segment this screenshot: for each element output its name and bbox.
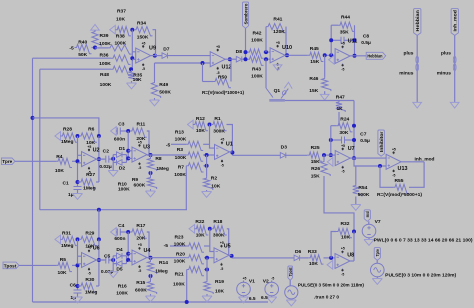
svg-text:100K: 100K	[118, 186, 130, 192]
svg-text:R27: R27	[86, 172, 95, 178]
svg-text:R20: R20	[176, 251, 185, 257]
resistor R13	[171, 143, 186, 145]
resistor R17	[130, 229, 147, 238]
capacitor C4	[116, 231, 117, 233]
svg-text:R36: R36	[100, 52, 109, 58]
wire R32 to U8 output	[353, 232, 355, 262]
svg-text:1Meg: 1Meg	[85, 289, 98, 295]
node R29 right	[97, 237, 101, 241]
diode D1	[113, 154, 116, 156]
ground below R2	[206, 190, 208, 192]
svg-text:R=(V(mod)*5000+1): R=(V(mod)*5000+1)	[377, 192, 423, 197]
svg-text:10K: 10K	[116, 17, 125, 23]
ground flag (rotated left) at C3	[111, 127, 117, 136]
svg-text:R13: R13	[175, 130, 184, 136]
node U3 inv in	[126, 149, 130, 153]
ground flag (rotated left) at R28	[55, 132, 61, 141]
node R12/R1 junction	[208, 123, 212, 127]
svg-text:100K: 100K	[99, 61, 111, 67]
resistor R26	[323, 155, 325, 160]
svg-text:100K: 100K	[251, 74, 263, 80]
flag Tpre	[2, 158, 16, 165]
svg-text:PWL(0 0 6 0 7 33 13 33 14 66 2: PWL(0 0 6 0 7 33 13 33 14 66 20 66 21 10…	[374, 237, 473, 243]
svg-text:R33: R33	[308, 249, 317, 255]
svg-text:600n: 600n	[114, 236, 125, 242]
svg-text:V2: V2	[263, 279, 269, 285]
op-amp U10	[270, 48, 285, 63]
svg-text:minus: minus	[399, 71, 413, 77]
ground flag (rotated up) above R39	[91, 25, 100, 31]
svg-text:1µ: 1µ	[68, 192, 74, 198]
wire R34 top fb to output	[155, 51, 157, 56]
node C7 right	[352, 138, 356, 142]
svg-text:R=(V(mod)*1000+1): R=(V(mod)*1000+1)	[202, 90, 244, 95]
ground below Tpre source	[376, 277, 378, 279]
resistor R41 feedback	[265, 27, 267, 52]
svg-text:V7: V7	[375, 219, 381, 225]
wire U4 input column	[127, 232, 129, 260]
svg-text:U5: U5	[224, 243, 231, 249]
svg-text:R11: R11	[137, 121, 146, 127]
voltage source V2	[265, 282, 279, 296]
svg-text:100K: 100K	[174, 258, 186, 264]
svg-text:10K: 10K	[309, 261, 318, 267]
wire D7 to U12	[168, 55, 211, 57]
svg-text:15K: 15K	[311, 159, 320, 165]
node R7 junction	[205, 164, 209, 168]
resistor R8	[147, 157, 156, 171]
op-amp U2	[78, 154, 82, 156]
svg-text:100K: 100K	[99, 41, 111, 47]
svg-text:R50: R50	[218, 75, 227, 81]
node U11 fb tap	[329, 53, 333, 57]
resistor R30	[78, 285, 80, 287]
svg-text:100K: 100K	[114, 41, 126, 47]
node U13 plus input	[378, 164, 382, 168]
ground below R49	[154, 98, 156, 100]
wire R42 to U10	[264, 51, 271, 53]
node U12 R50 tap	[201, 61, 205, 65]
node U4 inv in	[126, 252, 130, 256]
ground flag below U10	[277, 64, 279, 66]
wire U1 inv column	[210, 125, 215, 149]
flag Tpost	[3, 262, 19, 269]
node R36 junction	[130, 56, 134, 60]
svg-text:600K: 600K	[134, 183, 146, 189]
wire R21 left to bottom rail	[186, 270, 188, 303]
svg-text:D4: D4	[116, 247, 123, 253]
diode D4	[113, 255, 116, 257]
wire R49 top / U12 lower input	[155, 62, 211, 64]
svg-text:R39: R39	[100, 33, 109, 39]
svg-text:15K: 15K	[309, 88, 318, 94]
ground flag below R46	[324, 91, 326, 94]
voltage source V7	[368, 221, 370, 224]
node R3/R7 junction	[205, 153, 209, 157]
svg-text:Inhibitor: Inhibitor	[379, 131, 384, 152]
svg-text:Inh_mod: Inh_mod	[453, 10, 458, 32]
resistor R12	[193, 121, 208, 130]
ground below Tpost source	[290, 299, 292, 300]
svg-text:R15: R15	[136, 280, 145, 286]
svg-text:Tpost: Tpost	[4, 263, 17, 268]
wire D6 to R33	[300, 257, 309, 259]
node R32 right	[352, 230, 356, 234]
svg-text:-5: -5	[341, 170, 344, 174]
resistor R35	[128, 70, 137, 81]
node R5 input	[76, 263, 80, 267]
svg-text:120K: 120K	[273, 29, 285, 35]
voltage source Tpre pulse	[376, 260, 378, 263]
wire bus2 (Tpost-trace net, vertical x=39.8)	[39, 69, 41, 210]
svg-text:-5: -5	[220, 267, 223, 271]
svg-text:100K: 100K	[100, 82, 112, 88]
wire U12 out to D8	[225, 58, 236, 60]
svg-text:R23: R23	[175, 235, 184, 241]
node U1 output	[230, 151, 234, 155]
svg-text:D6: D6	[295, 249, 302, 255]
svg-text:R18: R18	[213, 219, 222, 225]
svg-text:+5: +5	[216, 45, 220, 49]
wire U11 out to flag	[350, 55, 366, 57]
op-amp U7	[335, 151, 350, 166]
node rail junction	[185, 300, 189, 304]
svg-text:-5: -5	[271, 277, 274, 281]
svg-text:R29: R29	[85, 231, 94, 237]
svg-text:R7: R7	[178, 164, 185, 170]
wire R2 column	[206, 155, 208, 177]
wire U1 out to D3	[230, 151, 233, 153]
diode D8	[236, 56, 242, 62]
node C7 left	[329, 138, 333, 142]
svg-text:R1: R1	[214, 116, 221, 122]
svg-text:+5: +5	[243, 277, 247, 281]
svg-text:-5: -5	[69, 46, 74, 52]
svg-text:R43: R43	[252, 67, 261, 73]
svg-text:1Meg: 1Meg	[83, 185, 96, 191]
svg-text:R2: R2	[211, 175, 218, 181]
node U2 in top	[76, 134, 80, 138]
node U11 output	[353, 54, 357, 58]
svg-text:10K: 10K	[196, 128, 205, 134]
resistor R42	[248, 49, 264, 58]
wire U9 out to D7	[151, 55, 162, 57]
wire U13 lower input	[354, 158, 386, 166]
svg-text:R49: R49	[159, 82, 168, 88]
svg-text:R41: R41	[273, 17, 282, 23]
svg-text:10K: 10K	[211, 184, 220, 190]
wire U7 fb column left	[330, 126, 332, 155]
svg-text:15K: 15K	[310, 59, 319, 65]
svg-text:C6: C6	[70, 282, 77, 288]
node R45/R46 junction	[323, 53, 327, 57]
wire U2 input column	[77, 136, 79, 186]
svg-text:+5: +5	[138, 243, 142, 247]
svg-text:R22: R22	[195, 219, 204, 225]
node C3/R11	[126, 129, 130, 133]
svg-text:600K: 600K	[135, 287, 147, 293]
resistor R4	[56, 158, 72, 167]
ground below R9	[150, 189, 152, 191]
resistor R21	[187, 266, 204, 275]
resistor R27	[78, 181, 80, 183]
svg-text:U12: U12	[222, 65, 232, 71]
flag mod	[364, 210, 370, 222]
svg-text:100K: 100K	[251, 38, 263, 44]
svg-text:100K: 100K	[174, 172, 186, 178]
node U2 output	[97, 157, 101, 161]
svg-text:300K: 300K	[213, 129, 225, 135]
flag Sombrero	[243, 2, 249, 28]
wire U3 input column	[127, 131, 129, 159]
wire U2 out	[97, 158, 105, 160]
svg-text:.tran 0 27 0: .tran 0 27 0	[314, 294, 339, 300]
svg-text:R55: R55	[395, 178, 404, 184]
capacitor C8	[331, 39, 341, 41]
svg-text:minus: minus	[437, 71, 451, 77]
svg-text:R32: R32	[341, 221, 350, 227]
resistor R39	[92, 30, 101, 46]
capacitor C2	[97, 158, 106, 160]
resistor R32 feedback	[331, 232, 336, 258]
ground below R15	[150, 294, 152, 296]
svg-text:+5: +5	[341, 42, 345, 46]
resistor R47	[336, 101, 345, 113]
diode D3	[280, 153, 286, 159]
wire U6 input column	[77, 239, 79, 290]
svg-text:150K: 150K	[137, 35, 149, 41]
svg-text:U10: U10	[282, 45, 292, 51]
ground below R35	[131, 81, 133, 83]
resistor R33	[308, 255, 323, 264]
resistor R40	[75, 44, 92, 53]
ground flag (rotated left) at C4	[111, 228, 117, 237]
svg-text:10K: 10K	[55, 168, 64, 174]
svg-text:6.5: 6.5	[249, 296, 256, 302]
svg-text:Tpre: Tpre	[2, 159, 12, 164]
node U7 inv input	[329, 153, 333, 157]
svg-text:C7: C7	[360, 131, 367, 137]
svg-text:R30: R30	[85, 277, 94, 283]
capacitor C1	[74, 187, 82, 190]
wire U2 fb column	[98, 136, 100, 182]
svg-text:C4: C4	[118, 223, 125, 229]
node C6/R30	[76, 284, 80, 288]
svg-text:+5: +5	[341, 144, 345, 148]
wire U9 input column	[131, 30, 133, 69]
svg-text:plus: plus	[441, 51, 451, 57]
svg-text:+5: +5	[392, 148, 396, 152]
resistor R50 feedback	[202, 63, 204, 82]
resistor R36	[33, 57, 112, 59]
svg-text:0.5µ: 0.5µ	[361, 40, 371, 46]
svg-text:R16: R16	[118, 283, 127, 289]
svg-text:R54: R54	[358, 185, 367, 191]
svg-text:100K: 100K	[173, 282, 185, 288]
node R39/R40/R38 junction	[93, 46, 97, 50]
svg-text:20K: 20K	[136, 236, 145, 242]
svg-text:R37: R37	[117, 9, 126, 15]
resistor R34	[134, 27, 153, 36]
svg-text:-5: -5	[142, 67, 145, 71]
svg-text:D2: D2	[119, 166, 126, 172]
svg-text:R42: R42	[253, 31, 262, 37]
wire Inh_mod column	[454, 35, 456, 102]
node junction bus1-to-U2-feedback	[31, 116, 35, 120]
wire bus1 bottom rail	[33, 301, 269, 303]
svg-text:R26: R26	[311, 166, 320, 172]
svg-text:1Meg: 1Meg	[61, 139, 74, 145]
resistor R29	[79, 236, 97, 245]
svg-text:Tpre: Tpre	[375, 249, 380, 257]
resistor R45	[308, 52, 324, 61]
svg-text:-5: -5	[166, 142, 171, 148]
wire bus1 branch to U2 output column	[33, 118, 99, 136]
diode D7	[162, 53, 168, 59]
svg-text:Sombrero: Sombrero	[243, 3, 248, 24]
wire D-pair jogs	[112, 155, 114, 163]
wire U5 out to D6	[229, 254, 232, 256]
svg-text:500K: 500K	[159, 90, 171, 96]
svg-text:R40: R40	[78, 40, 87, 46]
op-amp U5	[214, 248, 229, 263]
node R33/U8 junction	[329, 256, 333, 260]
svg-text:Tpost: Tpost	[288, 267, 293, 276]
svg-text:mod: mod	[365, 211, 370, 217]
svg-text:U11: U11	[348, 38, 358, 44]
svg-text:U9: U9	[149, 46, 156, 52]
svg-text:R6: R6	[88, 127, 95, 133]
svg-text:U1: U1	[226, 142, 233, 148]
node U12 output	[228, 57, 232, 61]
svg-text:Hebbian: Hebbian	[367, 54, 382, 59]
voltage source Tpost pulse	[289, 280, 291, 286]
svg-text:0.5µ: 0.5µ	[360, 138, 370, 144]
op-amp U13	[386, 154, 401, 169]
svg-text:-5: -5	[341, 273, 344, 277]
svg-text:Inh_mod: Inh_mod	[415, 156, 435, 162]
ground below V7	[368, 238, 370, 240]
resistor R18	[211, 226, 227, 235]
wire R45 to U11	[323, 54, 335, 56]
ground flag (rotated left) at R22	[189, 225, 195, 234]
svg-text:R21: R21	[175, 272, 184, 278]
svg-text:+5: +5	[276, 41, 280, 45]
resistor R5	[56, 262, 72, 271]
wire R43 to U10	[264, 58, 271, 60]
node R4 input	[76, 159, 80, 163]
svg-text:U13: U13	[398, 166, 408, 172]
svg-text:R5: R5	[60, 257, 67, 263]
svg-text:+5: +5	[87, 145, 91, 149]
wire R7 left crossover	[185, 166, 187, 210]
ground flag (rotated left) at R31	[55, 235, 61, 244]
resistor R31	[60, 236, 77, 245]
svg-text:R47: R47	[336, 95, 345, 101]
resistor R43	[248, 56, 264, 65]
svg-text:35K: 35K	[340, 29, 349, 35]
node U5 output	[230, 254, 234, 258]
op-amp U12	[210, 52, 225, 67]
node Q1 base tap	[264, 57, 268, 61]
ground flag (rotated left) at U11 plus input	[329, 56, 335, 65]
wire branch down to U6 feedback column	[98, 210, 100, 240]
svg-text:R34: R34	[137, 21, 146, 27]
svg-text:U4: U4	[143, 248, 150, 254]
svg-text:R24: R24	[340, 117, 349, 123]
node R14/R15	[149, 274, 153, 278]
svg-text:50K: 50K	[78, 52, 87, 58]
svg-text:R38: R38	[116, 34, 125, 40]
node D-pair left	[111, 157, 115, 161]
svg-text:100K: 100K	[116, 290, 128, 296]
arrow end Hebbian column	[413, 102, 422, 108]
svg-text:R3: R3	[177, 147, 184, 153]
svg-text:100K: 100K	[175, 137, 187, 143]
resistor R23	[170, 245, 187, 247]
svg-text:30K: 30K	[339, 130, 348, 136]
wire Sombrero down	[245, 28, 247, 59]
diode D5	[113, 263, 116, 265]
resistor R25	[307, 152, 322, 161]
resistor R24 feedback	[331, 125, 336, 127]
node U7 output	[352, 156, 356, 160]
svg-text:100K: 100K	[174, 242, 186, 248]
svg-text:U2: U2	[93, 147, 100, 153]
svg-text:D1: D1	[119, 146, 126, 152]
svg-text:Hebbian: Hebbian	[415, 10, 420, 32]
wire R47 bottom to R24	[338, 112, 340, 126]
svg-text:1Meg: 1Meg	[156, 166, 169, 172]
svg-text:-5: -5	[88, 272, 91, 276]
wire U13 output	[401, 161, 424, 163]
node R8/R9	[149, 171, 153, 175]
svg-text:C5: C5	[104, 253, 111, 259]
resistor R54	[355, 166, 357, 184]
svg-text:500K: 500K	[358, 192, 370, 198]
resistor R6	[79, 133, 97, 142]
node U4 output	[149, 256, 153, 260]
capacitor C7	[331, 139, 342, 141]
node U6 output	[97, 258, 101, 262]
wire U4 out to R20	[147, 257, 187, 259]
svg-text:1Meg: 1Meg	[61, 243, 74, 249]
svg-text:Q1: Q1	[274, 88, 281, 94]
svg-text:V1: V1	[249, 279, 255, 285]
resistor R44 feedback	[330, 25, 332, 55]
wire U3 out to R3	[147, 154, 186, 156]
svg-text:-5: -5	[138, 269, 141, 273]
wire D8 to node	[242, 58, 247, 60]
svg-text:300K: 300K	[213, 233, 225, 239]
svg-text:R17: R17	[136, 223, 145, 229]
diode D2	[113, 161, 116, 163]
node Sombrero upper	[244, 50, 248, 54]
svg-text:plus: plus	[404, 51, 414, 57]
node C4/R17	[126, 230, 130, 234]
flag Hebbian (vertical)	[414, 9, 421, 36]
svg-text:6.5: 6.5	[261, 295, 268, 301]
svg-text:R28: R28	[63, 126, 72, 132]
svg-text:10K: 10K	[341, 234, 350, 240]
svg-text:R25: R25	[311, 145, 320, 151]
node junction crossover-to-U6-column	[97, 208, 101, 212]
svg-text:U7: U7	[348, 146, 355, 152]
svg-text:R4: R4	[56, 154, 63, 160]
node R22/R18 junction	[208, 227, 212, 231]
node U3 plus in	[126, 156, 130, 160]
svg-text:10K: 10K	[215, 289, 224, 295]
